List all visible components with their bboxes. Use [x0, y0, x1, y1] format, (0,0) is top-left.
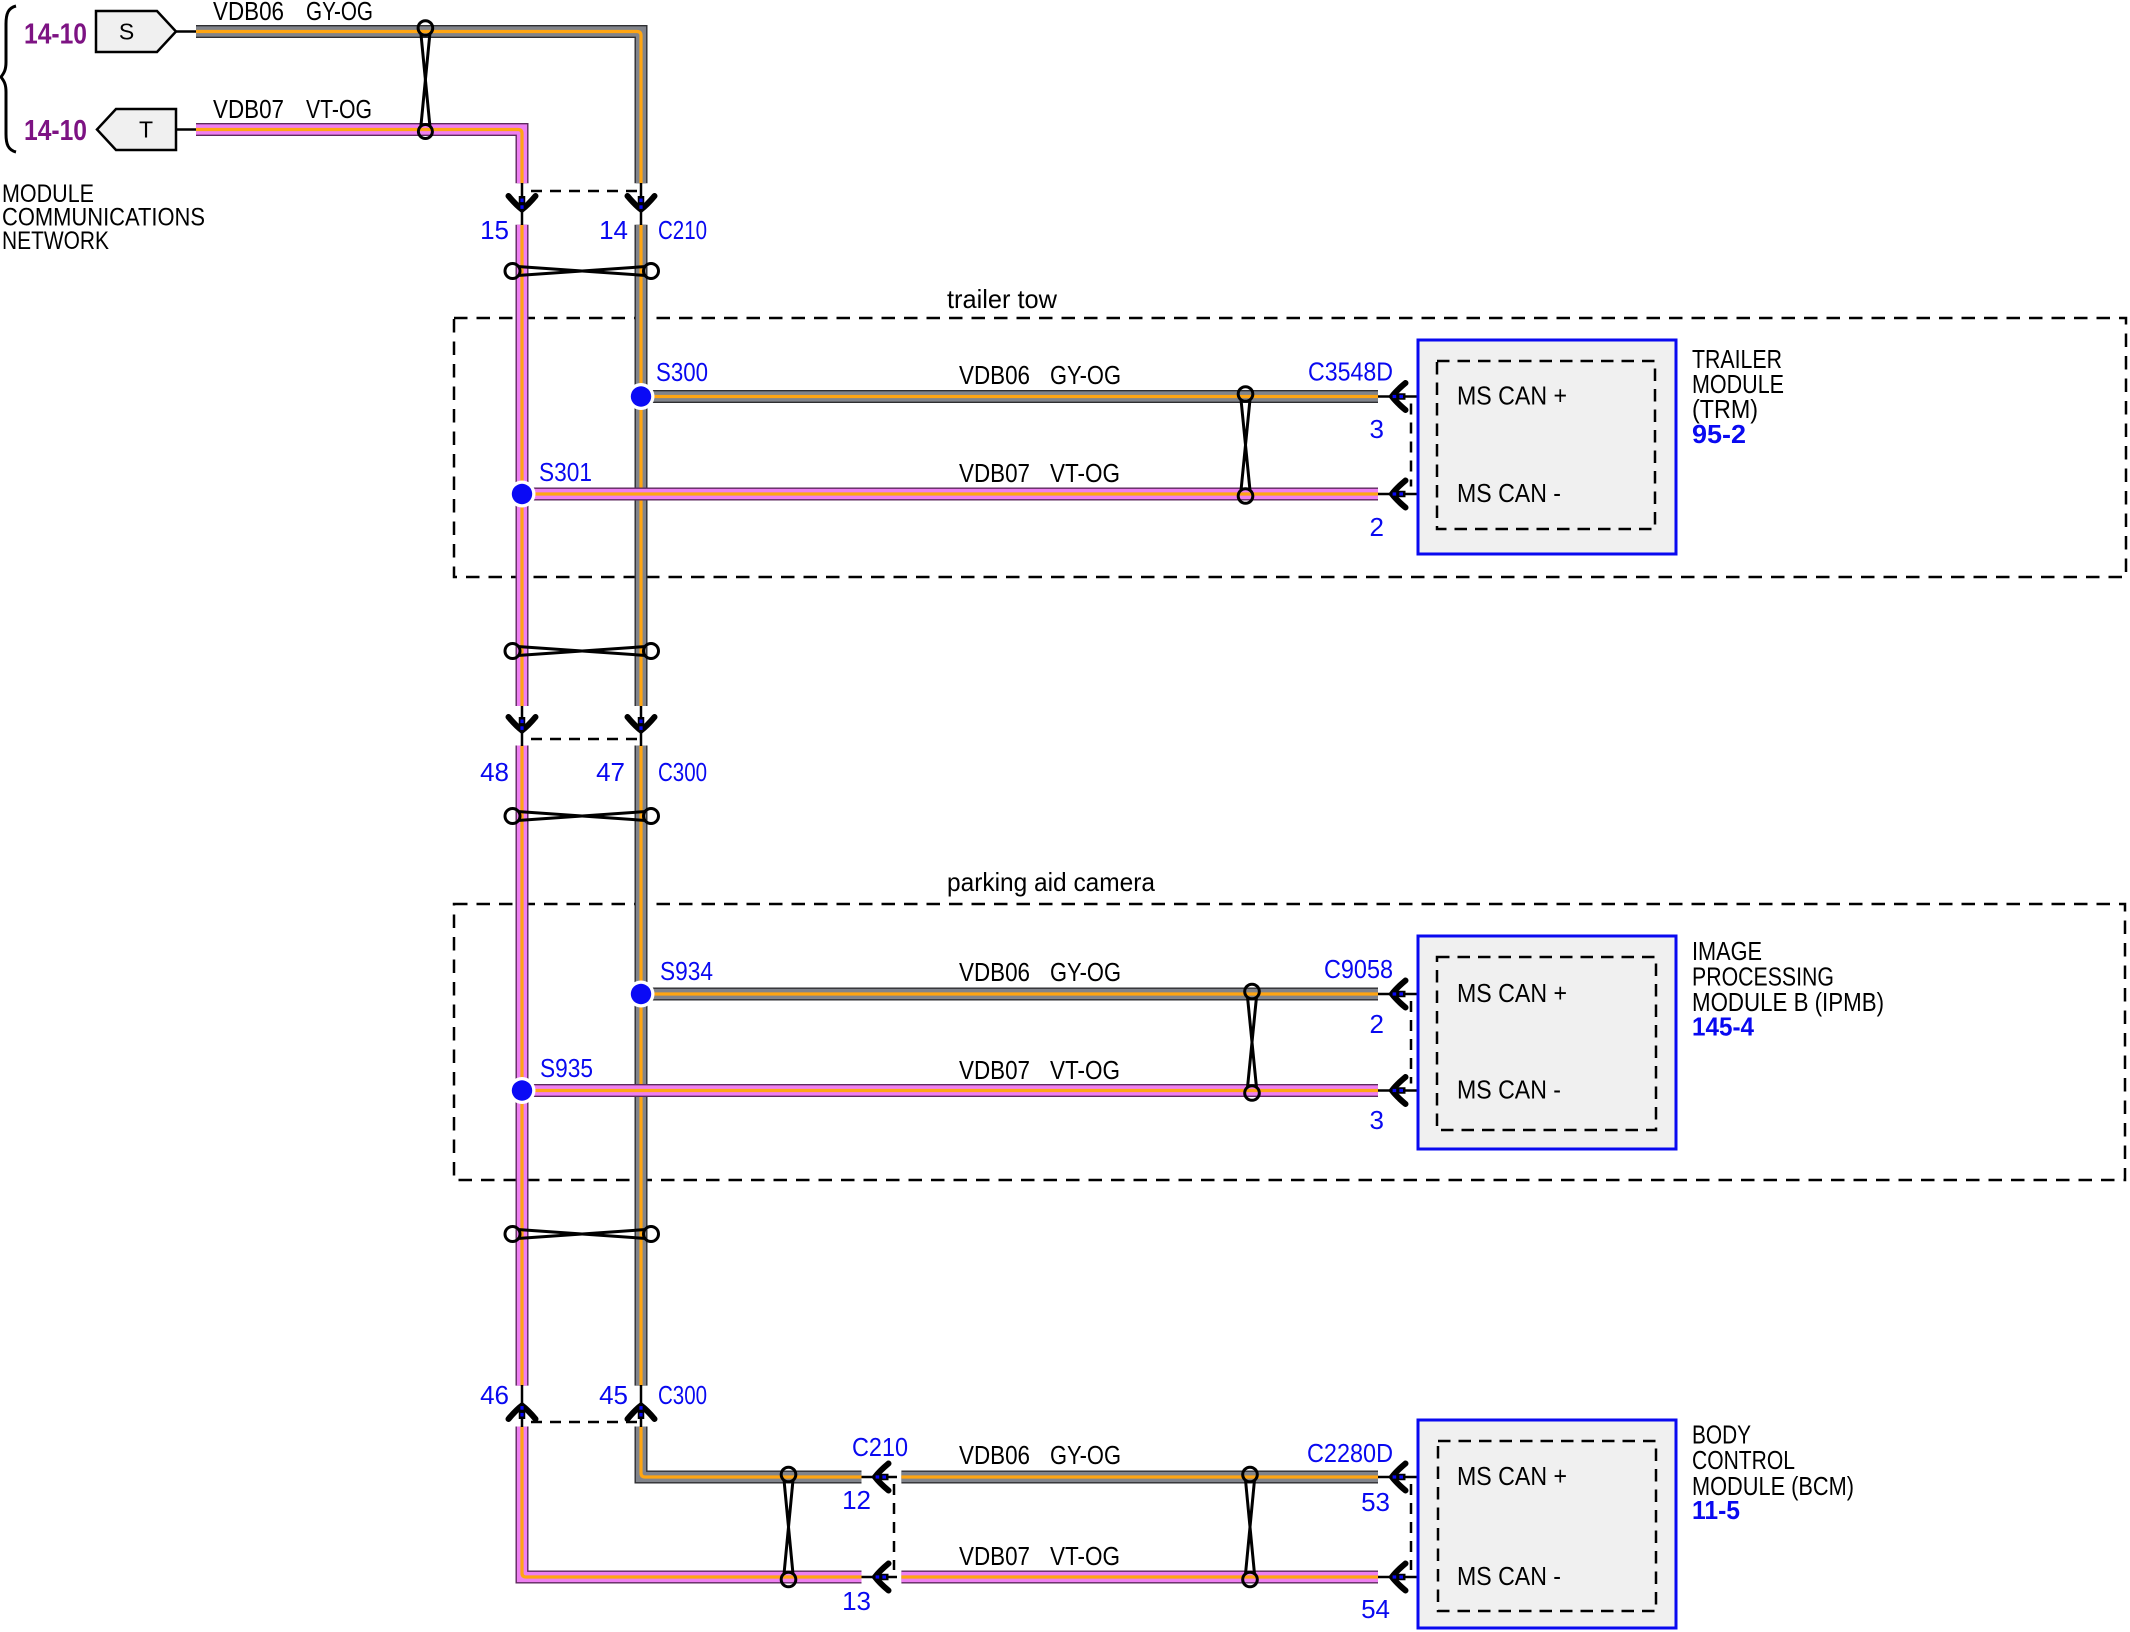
svg-text:11-5: 11-5 — [1692, 1495, 1740, 1525]
label: page ref 14-10 (T) — [24, 115, 87, 147]
svg-text:C300: C300 — [658, 757, 707, 787]
svg-text:46: 46 — [480, 1380, 509, 1410]
svg-text:MS CAN +: MS CAN + — [1457, 381, 1567, 411]
label: VDB06 GY-OG (trailer branch) — [959, 360, 1121, 390]
splice S935 — [509, 1053, 594, 1104]
trailer tow harness dashed box — [454, 318, 2126, 577]
label: BODY CONTROL MODULE (BCM) 11-5 — [1692, 1420, 1854, 1526]
IMAGE PROCESSING MODULE B (IPMB) box — [1418, 936, 1676, 1149]
wire VDB07 VT-OG main run (top horizontal + vertical bus) — [196, 130, 522, 1386]
twisted pair symbol (below C210) — [505, 264, 659, 279]
svg-text:MS CAN -: MS CAN - — [1457, 1075, 1561, 1105]
label: VDB07 VT-OG (camera branch) — [959, 1055, 1120, 1085]
twisted pair symbol (bus, above C300) — [505, 644, 659, 659]
svg-text:VDB06: VDB06 — [959, 360, 1030, 390]
svg-text:45: 45 — [599, 1380, 628, 1410]
off-page connector flag T — [97, 109, 196, 150]
svg-text:14-10: 14-10 — [24, 115, 87, 147]
wire VDB07 VT-OG lower run to C210 — [522, 1427, 862, 1578]
svg-text:VDB07: VDB07 — [213, 94, 284, 124]
connector C2280D pin 53 termination — [1307, 1438, 1438, 1517]
svg-text:53: 53 — [1361, 1487, 1390, 1517]
twisted pair symbol (top pair) — [418, 21, 433, 139]
twisted pair symbol (bus, below C300) — [505, 809, 659, 824]
twisted pair symbol (lower run, left of C210) — [781, 1467, 796, 1587]
svg-text:T: T — [139, 117, 153, 143]
svg-text:2: 2 — [1370, 1009, 1384, 1039]
svg-text:C9058: C9058 — [1324, 954, 1393, 984]
svg-text:47: 47 — [596, 757, 625, 787]
svg-text:VT-OG: VT-OG — [306, 94, 372, 124]
wire VDB07 VT-OG branch S935 to IPMB — [522, 1084, 1378, 1097]
label: VDB07 VT-OG (trailer branch) — [959, 458, 1120, 488]
connector C2280D dashed tie — [1410, 1484, 1413, 1570]
connector C210 (pins 12/13) — [842, 1432, 908, 1616]
connector C9058 pin 2 termination — [1324, 954, 1438, 1039]
svg-text:48: 48 — [480, 757, 509, 787]
svg-text:GY-OG: GY-OG — [1050, 957, 1121, 987]
label: MODULE COMMUNICATIONS NETWORK — [2, 180, 205, 255]
svg-text:VDB07: VDB07 — [959, 1541, 1030, 1571]
svg-text:parking aid camera: parking aid camera — [947, 867, 1155, 897]
label: TRAILER MODULE (TRM) 95-2 — [1692, 344, 1784, 449]
svg-text:145-4: 145-4 — [1692, 1012, 1755, 1042]
connector C3548D dashed tie — [1410, 404, 1413, 487]
svg-text:MS CAN -: MS CAN - — [1457, 478, 1561, 508]
svg-text:13: 13 — [842, 1586, 871, 1616]
svg-text:VT-OG: VT-OG — [1050, 458, 1120, 488]
label: VDB06 GY-OG (camera branch) — [959, 957, 1121, 987]
svg-text:54: 54 — [1361, 1594, 1390, 1624]
off-page connector flag S — [96, 11, 196, 52]
svg-text:C210: C210 — [852, 1432, 908, 1462]
svg-text:14-10: 14-10 — [24, 19, 87, 51]
wire VDB06 GY-OG from C210 pin 12 to BCM — [901, 1471, 1378, 1484]
svg-text:VDB07: VDB07 — [959, 458, 1030, 488]
svg-text:MS CAN +: MS CAN + — [1457, 978, 1567, 1008]
connector C210 (pins 15/14) — [480, 183, 707, 245]
svg-text:12: 12 — [842, 1485, 871, 1515]
twisted pair symbol (BCM run) — [1243, 1467, 1258, 1587]
connector C9058 dashed tie — [1410, 1001, 1413, 1084]
label: IMAGE PROCESSING MODULE B (IPMB) 145-4 — [1692, 936, 1884, 1042]
label: VDB06 GY-OG (BCM run) — [959, 1440, 1121, 1470]
connector C9058 pin 3 termination — [1370, 1077, 1438, 1135]
connector C3548D pin 2 termination — [1370, 481, 1438, 543]
svg-text:S301: S301 — [539, 457, 592, 487]
svg-text:C3548D: C3548D — [1308, 357, 1393, 387]
svg-text:VT-OG: VT-OG — [1050, 1541, 1120, 1571]
svg-text:15: 15 — [480, 215, 509, 245]
svg-text:VDB06: VDB06 — [959, 1440, 1030, 1470]
label: page ref 14-10 (S) — [24, 19, 87, 51]
label: trailer tow — [947, 284, 1057, 314]
svg-text:S935: S935 — [540, 1053, 593, 1083]
svg-text:95-2: 95-2 — [1692, 419, 1746, 449]
svg-text:3: 3 — [1370, 414, 1384, 444]
svg-text:GY-OG: GY-OG — [306, 0, 373, 26]
svg-text:S300: S300 — [656, 357, 708, 387]
label: VDB07 VT-OG (top) — [213, 94, 372, 124]
twisted pair symbol (bus, below camera box) — [505, 1227, 659, 1242]
svg-text:C210: C210 — [658, 215, 707, 245]
wire VDB06 GY-OG main run (top horizontal + vertical bus) — [196, 32, 641, 1386]
svg-text:3: 3 — [1370, 1105, 1384, 1135]
twisted pair symbol (camera branch) — [1245, 984, 1260, 1100]
wire VDB07 VT-OG branch S301 to TRM — [522, 488, 1378, 501]
svg-text:C2280D: C2280D — [1307, 1438, 1393, 1468]
svg-text:C300: C300 — [658, 1380, 707, 1410]
svg-text:GY-OG: GY-OG — [1050, 1440, 1121, 1470]
svg-text:2: 2 — [1370, 512, 1384, 542]
svg-text:S: S — [119, 19, 134, 45]
connector C300 (pins 46/45) — [480, 1380, 707, 1427]
svg-text:S934: S934 — [660, 956, 713, 986]
svg-text:VDB06: VDB06 — [959, 957, 1030, 987]
connector C2280D pin 54 termination — [1361, 1564, 1438, 1625]
wire VDB06 GY-OG branch S934 to IPMB — [641, 988, 1378, 1001]
brace (off-page bracket) — [1, 6, 16, 152]
twisted pair symbol (trailer branch) — [1238, 387, 1253, 504]
svg-text:14: 14 — [599, 215, 628, 245]
label: VDB07 VT-OG (BCM run) — [959, 1541, 1120, 1571]
wire VDB06 GY-OG lower run to C210 — [641, 1427, 862, 1478]
splice S934 — [628, 956, 714, 1008]
label: VDB06 GY-OG (top) — [213, 0, 373, 26]
wire VDB07 VT-OG from C210 pin 13 to BCM — [901, 1571, 1378, 1584]
svg-text:MS CAN +: MS CAN + — [1457, 1461, 1567, 1491]
svg-text:GY-OG: GY-OG — [1050, 360, 1121, 390]
parking aid camera harness dashed box — [454, 904, 2125, 1180]
wire VDB06 GY-OG branch S300 to TRM — [641, 390, 1378, 403]
BODY CONTROL MODULE (BCM) box — [1418, 1420, 1676, 1628]
svg-text:VDB06: VDB06 — [213, 0, 284, 26]
svg-text:trailer tow: trailer tow — [947, 284, 1057, 314]
svg-text:MS CAN -: MS CAN - — [1457, 1561, 1561, 1591]
label: parking aid camera — [947, 867, 1155, 897]
svg-text:VDB07: VDB07 — [959, 1055, 1030, 1085]
splice S301 — [509, 457, 593, 508]
TRAILER MODULE (TRM) box — [1418, 340, 1676, 554]
connector C300 (pins 48/47) — [480, 706, 707, 787]
svg-text:VT-OG: VT-OG — [1050, 1055, 1120, 1085]
splice S300 — [628, 357, 709, 410]
svg-text:NETWORK: NETWORK — [2, 227, 109, 255]
connector C3548D pin 3 termination — [1308, 357, 1438, 445]
